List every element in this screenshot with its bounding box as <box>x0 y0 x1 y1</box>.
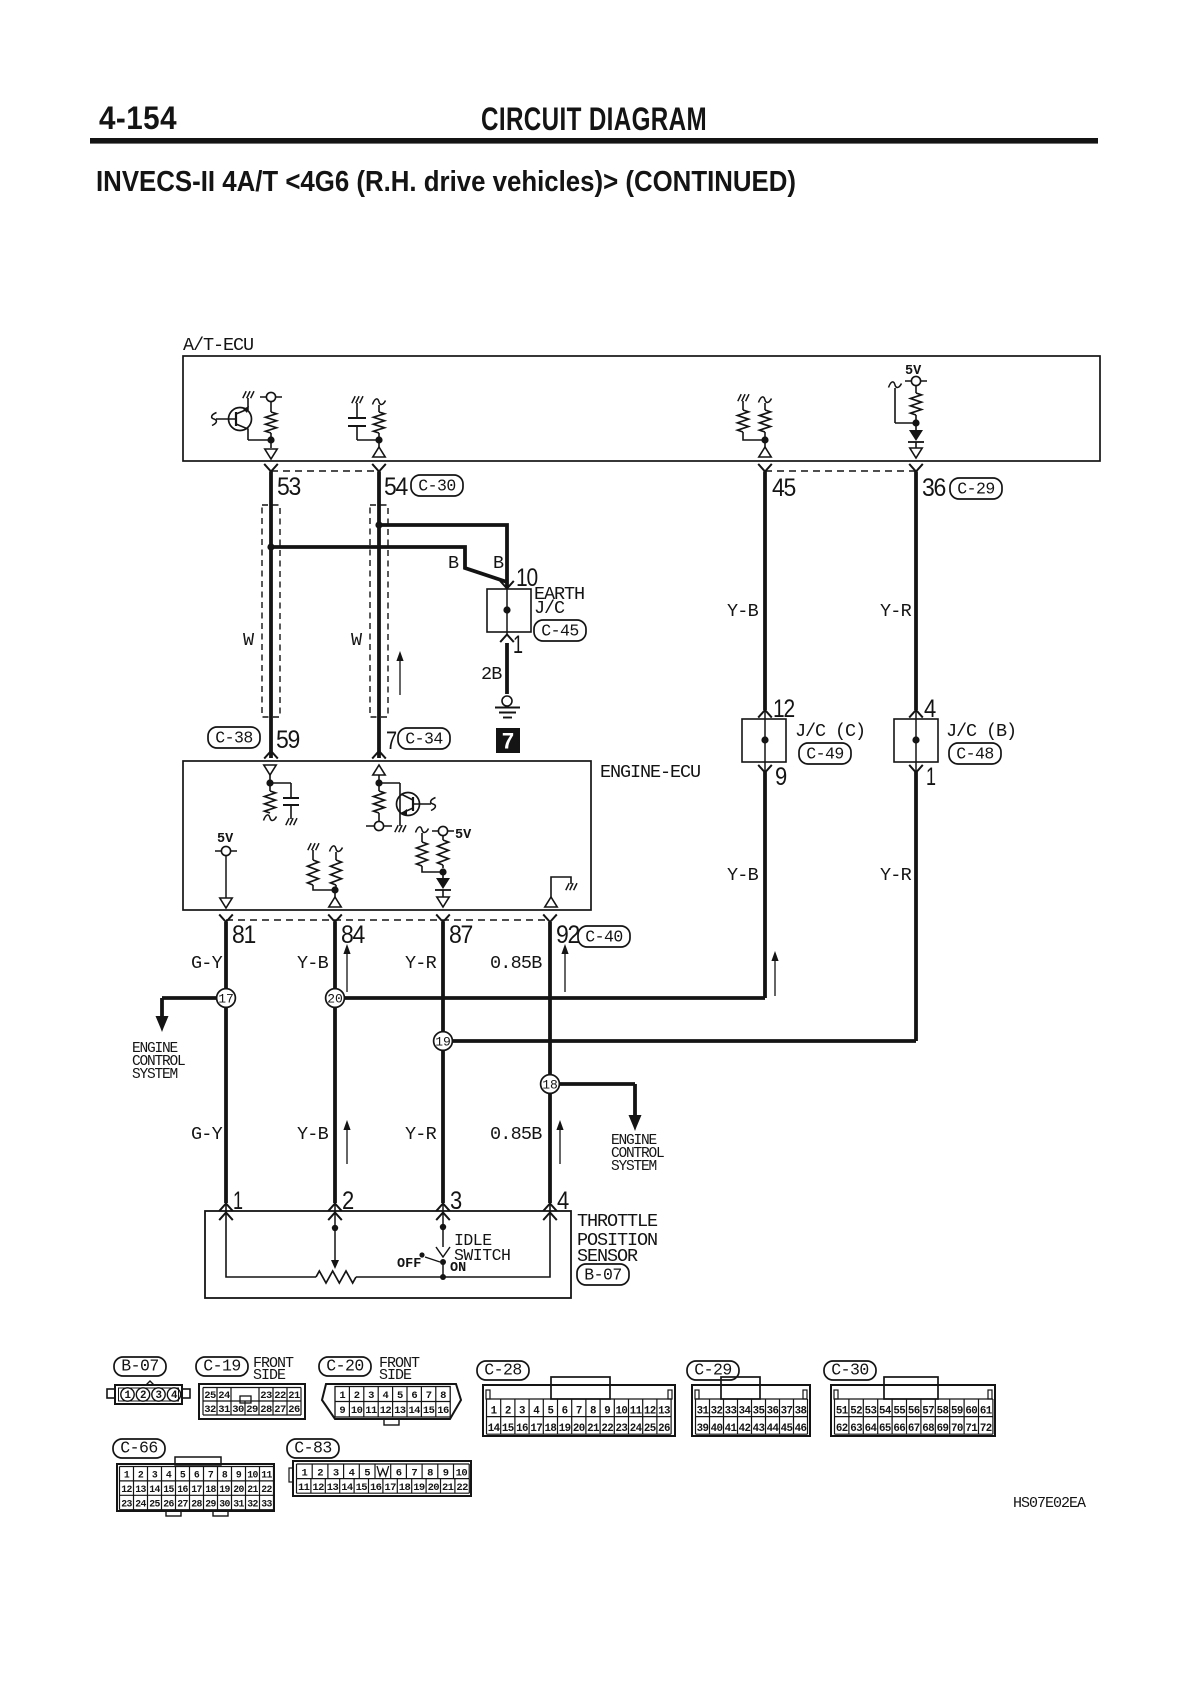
svg-text:0.85B: 0.85B <box>490 1124 542 1145</box>
svg-text:Y-R: Y-R <box>405 953 437 974</box>
svg-text:39: 39 <box>697 1423 709 1435</box>
transistor Q1 inside A/T-ECU <box>212 391 271 440</box>
svg-text:6: 6 <box>396 1467 402 1479</box>
svg-text:15: 15 <box>502 1423 514 1435</box>
svg-text:5: 5 <box>364 1467 370 1479</box>
svg-text:16: 16 <box>516 1423 528 1435</box>
svg-text:10: 10 <box>247 1470 258 1481</box>
svg-text:19: 19 <box>219 1484 230 1495</box>
svg-text:27: 27 <box>177 1499 188 1510</box>
svg-text:21: 21 <box>288 1390 300 1402</box>
connector drawing C-19 <box>199 1384 305 1419</box>
svg-text:INVECS-II 4A/T <4G6 (R.H. driv: INVECS-II 4A/T <4G6 (R.H. drive vehicles… <box>96 166 796 198</box>
connector label C-29 <box>950 478 1002 499</box>
svg-text:A/T-ECU: A/T-ECU <box>183 335 253 356</box>
svg-text:31: 31 <box>233 1499 244 1510</box>
svg-text:36: 36 <box>767 1405 779 1417</box>
pin 87 of connector C-40 <box>436 914 472 949</box>
svg-text:16: 16 <box>177 1484 188 1495</box>
svg-text:57: 57 <box>922 1405 934 1417</box>
svg-text:20: 20 <box>573 1423 585 1435</box>
svg-text:17: 17 <box>218 992 234 1007</box>
svg-text:14: 14 <box>408 1405 420 1417</box>
svg-text:1: 1 <box>124 1470 130 1481</box>
svg-text:3: 3 <box>333 1467 339 1479</box>
ENGINE-ECU block <box>183 761 700 910</box>
svg-text:22: 22 <box>601 1423 613 1435</box>
idle switch from pin 3 <box>419 1204 450 1280</box>
svg-text:29: 29 <box>246 1404 258 1416</box>
svg-text:OFF: OFF <box>397 1257 421 1272</box>
svg-text:J/C: J/C <box>534 598 565 619</box>
svg-text:20: 20 <box>428 1482 440 1494</box>
pin 54 of connector C-30 <box>372 464 408 501</box>
track wire to pin 4 <box>356 1204 550 1277</box>
svg-text:THROTTLE: THROTTLE <box>577 1211 658 1232</box>
svg-text:6: 6 <box>411 1390 417 1402</box>
svg-text:7: 7 <box>502 729 514 754</box>
svg-text:3: 3 <box>152 1470 158 1481</box>
svg-text:2: 2 <box>317 1467 323 1479</box>
connector label C-83 <box>287 1439 339 1458</box>
svg-text:Y-R: Y-R <box>880 601 912 622</box>
svg-text:59: 59 <box>276 726 299 754</box>
pin 7 chevron and label <box>372 727 396 759</box>
svg-text:8: 8 <box>440 1390 446 1402</box>
transistor Q2 inside ENGINE-ECU <box>379 783 436 832</box>
pin 59 input triangle and resistor R6 / capacitor C2 inside ENGINE-ECU <box>264 765 300 825</box>
svg-text:30: 30 <box>219 1499 230 1510</box>
svg-text:35: 35 <box>753 1405 765 1417</box>
connector label C-29 <box>687 1361 739 1380</box>
svg-text:CIRCUIT DIAGRAM: CIRCUIT DIAGRAM <box>481 101 707 137</box>
svg-text:23: 23 <box>121 1499 132 1510</box>
svg-text:60: 60 <box>965 1405 977 1417</box>
svg-text:C-48: C-48 <box>956 745 994 764</box>
pin 12 of J/C (C) <box>758 695 794 723</box>
svg-text:87: 87 <box>449 921 472 949</box>
shield dashed box around wire 54 <box>371 506 387 716</box>
svg-text:C-40: C-40 <box>585 928 623 947</box>
svg-text:63: 63 <box>850 1423 862 1435</box>
svg-text:15: 15 <box>423 1405 435 1417</box>
shield dashed box around wire 53 <box>263 506 279 716</box>
pin 4 of J/C (B) <box>909 695 936 723</box>
svg-text:36: 36 <box>922 474 945 502</box>
svg-text:27: 27 <box>274 1404 286 1416</box>
svg-text:31: 31 <box>697 1405 710 1417</box>
svg-text:3: 3 <box>368 1390 374 1402</box>
resistor R3 with chassis ground (pin 45 branch) <box>738 394 766 440</box>
svg-text:16: 16 <box>437 1405 449 1417</box>
svg-text:W: W <box>243 630 255 651</box>
svg-text:32: 32 <box>247 1499 258 1510</box>
svg-text:B: B <box>448 553 459 574</box>
svg-text:70: 70 <box>951 1423 963 1435</box>
branch from node 18 to engine control system <box>550 1084 642 1131</box>
svg-text:4: 4 <box>166 1470 172 1481</box>
resistor R2 (pin 54 branch) <box>373 399 386 457</box>
svg-text:8: 8 <box>590 1405 596 1417</box>
svg-text:C-30: C-30 <box>831 1361 869 1380</box>
wire Y-R from J/C (B) pin 1 down to node 19 run <box>915 762 917 772</box>
svg-text:7: 7 <box>411 1467 417 1479</box>
up arrow beside Y-B right <box>774 957 776 996</box>
node 19 <box>434 1032 453 1051</box>
svg-text:19: 19 <box>559 1423 571 1435</box>
connector label B-07 tag <box>577 1264 629 1285</box>
svg-text:38: 38 <box>795 1405 807 1417</box>
svg-text:HS07E02EA: HS07E02EA <box>1013 1495 1086 1512</box>
svg-text:C-28: C-28 <box>484 1361 522 1380</box>
svg-text:12: 12 <box>380 1405 392 1417</box>
svg-text:13: 13 <box>135 1484 146 1495</box>
svg-text:17: 17 <box>191 1484 202 1495</box>
svg-text:21: 21 <box>247 1484 258 1495</box>
svg-text:10: 10 <box>616 1405 628 1417</box>
svg-text:65: 65 <box>879 1423 891 1435</box>
svg-text:C-19: C-19 <box>203 1357 241 1376</box>
connector label C-49 <box>799 743 851 764</box>
svg-text:17: 17 <box>384 1482 396 1494</box>
pin 9 of J/C (C) <box>758 763 786 791</box>
text engine control system left <box>132 1041 185 1083</box>
5V supply, resistor R5 and zener diode D1 (pin 36 branch) <box>889 364 928 458</box>
svg-text:54: 54 <box>879 1405 892 1417</box>
svg-text:21: 21 <box>587 1423 600 1435</box>
svg-text:12: 12 <box>121 1484 132 1495</box>
EARTH J/C junction block C-45 <box>487 584 584 632</box>
wire Y-B from pin 45 to J/C (C) <box>763 472 767 711</box>
svg-text:SYSTEM: SYSTEM <box>611 1159 657 1175</box>
svg-text:ENGINE-ECU: ENGINE-ECU <box>600 762 700 783</box>
svg-text:4: 4 <box>349 1467 355 1479</box>
node 17 <box>217 989 236 1008</box>
svg-text:18: 18 <box>399 1482 411 1494</box>
svg-text:2: 2 <box>505 1405 511 1417</box>
svg-text:18: 18 <box>205 1484 216 1495</box>
page header rule and titles <box>90 100 1098 198</box>
svg-text:18: 18 <box>542 1078 558 1093</box>
svg-text:15: 15 <box>356 1482 368 1494</box>
svg-text:21: 21 <box>442 1482 454 1494</box>
svg-text:33: 33 <box>725 1405 737 1417</box>
svg-text:62: 62 <box>836 1423 848 1435</box>
label IDLE SWITCH <box>454 1231 510 1265</box>
svg-text:9: 9 <box>775 763 786 791</box>
svg-text:32: 32 <box>204 1404 216 1416</box>
svg-text:72: 72 <box>980 1423 992 1435</box>
up arrow beside 0.85B upper <box>564 950 566 992</box>
pin 36 of connector C-29 <box>909 464 945 502</box>
pin 7 input triangle and resistor R7 inside ENGINE-ECU <box>366 765 392 831</box>
connector label C-28 <box>477 1361 529 1380</box>
svg-text:11: 11 <box>261 1470 272 1481</box>
svg-text:6: 6 <box>194 1470 200 1481</box>
svg-text:71: 71 <box>965 1423 978 1435</box>
svg-text:ON: ON <box>450 1261 466 1276</box>
svg-text:28: 28 <box>260 1404 272 1416</box>
svg-text:19: 19 <box>435 1035 451 1050</box>
svg-text:23: 23 <box>260 1390 272 1402</box>
dashed connector line for C-40 pins <box>226 919 550 921</box>
svg-text:W: W <box>351 630 363 651</box>
pin 45 of connector C-29 <box>758 464 795 502</box>
ground hook (pin 92) inside ENGINE-ECU <box>545 877 577 907</box>
wire Y-R from pin 87 to TPS pin 3 <box>441 922 445 1203</box>
svg-text:B: B <box>493 553 504 574</box>
junction block J/C (B) C-48 <box>894 710 1016 762</box>
svg-text:92: 92 <box>556 921 579 949</box>
connector drawing C-29 <box>692 1377 810 1436</box>
wire Y-B from J/C (C) pin 9 down to node 20 run <box>764 762 766 772</box>
svg-text:C-29: C-29 <box>957 480 995 499</box>
svg-text:53: 53 <box>277 473 300 501</box>
svg-text:24: 24 <box>630 1423 643 1435</box>
svg-text:9: 9 <box>339 1405 345 1417</box>
svg-text:6: 6 <box>562 1405 568 1417</box>
svg-text:81: 81 <box>232 921 255 949</box>
svg-text:C-66: C-66 <box>120 1439 158 1458</box>
svg-text:4: 4 <box>383 1390 389 1402</box>
svg-text:14: 14 <box>488 1423 501 1435</box>
throttle position sensor box B-07 <box>205 1211 571 1298</box>
svg-text:54: 54 <box>384 473 408 501</box>
resistor pair R10/R11 with 5V and diode D2 (pin 87) inside ENGINE-ECU <box>416 826 473 907</box>
wire G-Y from pin 81 to TPS pin 1 <box>224 922 228 1203</box>
capacitor C1 (pin 54 branch) <box>348 396 379 440</box>
svg-text:42: 42 <box>739 1423 751 1435</box>
connector drawing C-30 <box>831 1377 995 1436</box>
svg-text:3: 3 <box>156 1390 162 1402</box>
svg-text:64: 64 <box>865 1423 878 1435</box>
svg-text:20: 20 <box>327 992 343 1007</box>
up arrow beside Y-B lower <box>346 1126 348 1164</box>
potentiometer track wire inside TPS <box>226 1204 316 1277</box>
svg-text:52: 52 <box>850 1405 862 1417</box>
svg-text:C-20: C-20 <box>326 1357 364 1376</box>
svg-text:C-38: C-38 <box>215 729 253 748</box>
svg-text:2B: 2B <box>481 664 502 685</box>
pin 1 of J/C (B) <box>909 763 935 791</box>
svg-text:31: 31 <box>218 1404 230 1416</box>
resistor R12 potentiometer track <box>316 1271 356 1283</box>
svg-text:20: 20 <box>233 1484 244 1495</box>
svg-text:28: 28 <box>191 1499 202 1510</box>
svg-text:SYSTEM: SYSTEM <box>132 1067 178 1083</box>
node 20 <box>326 989 345 1008</box>
svg-text:12: 12 <box>644 1405 656 1417</box>
svg-text:14: 14 <box>341 1482 353 1494</box>
svg-text:Y-B: Y-B <box>727 865 759 886</box>
resistor R1 with terminal circle (pin 53 branch) <box>260 392 282 459</box>
svg-text:7: 7 <box>576 1405 582 1417</box>
svg-text:84: 84 <box>341 921 365 949</box>
svg-text:0.85B: 0.85B <box>490 953 542 974</box>
pin 53 of connector C-30 <box>264 464 300 501</box>
svg-text:B-07: B-07 <box>584 1266 622 1285</box>
svg-text:29: 29 <box>205 1499 216 1510</box>
svg-text:C-45: C-45 <box>541 622 579 641</box>
svg-text:1: 1 <box>513 631 522 659</box>
svg-text:2: 2 <box>354 1390 360 1402</box>
svg-text:68: 68 <box>922 1423 934 1435</box>
svg-text:34: 34 <box>739 1405 752 1417</box>
pin 84 of connector C-40 <box>328 914 365 949</box>
wire W from pin 53 to pin 59 <box>269 472 273 759</box>
svg-text:55: 55 <box>893 1405 905 1417</box>
svg-text:13: 13 <box>658 1405 670 1417</box>
svg-text:44: 44 <box>767 1423 780 1435</box>
A/T-ECU block <box>183 335 1100 461</box>
pin 2 of throttle position sensor <box>328 1187 353 1220</box>
wire from node 20 to J/C (C) pin 9 run <box>335 996 765 1000</box>
svg-text:C-83: C-83 <box>294 1439 332 1458</box>
svg-text:1: 1 <box>301 1467 307 1479</box>
svg-text:14: 14 <box>149 1484 160 1495</box>
svg-text:26: 26 <box>288 1404 300 1416</box>
svg-text:45: 45 <box>781 1423 793 1435</box>
connector drawing C-20 <box>322 1384 461 1425</box>
text FRONT SIDE for C-20 <box>379 1355 420 1384</box>
svg-text:51: 51 <box>836 1405 849 1417</box>
svg-text:13: 13 <box>394 1405 406 1417</box>
svg-text:Y-B: Y-B <box>727 601 759 622</box>
svg-text:33: 33 <box>261 1499 272 1510</box>
ground reference number 7 (black square) <box>496 728 520 754</box>
svg-text:25: 25 <box>644 1423 656 1435</box>
svg-text:18: 18 <box>545 1423 557 1435</box>
svg-text:67: 67 <box>908 1423 920 1435</box>
connector label B-07 bottom <box>114 1357 166 1376</box>
svg-text:5: 5 <box>547 1405 553 1417</box>
svg-text:11: 11 <box>298 1482 310 1494</box>
svg-text:C-34: C-34 <box>405 730 443 749</box>
pin 3 of throttle position sensor <box>436 1187 461 1220</box>
svg-text:24: 24 <box>135 1499 146 1510</box>
svg-text:3: 3 <box>519 1405 525 1417</box>
wiper arm from pin 2 <box>331 1204 339 1269</box>
svg-text:32: 32 <box>711 1405 723 1417</box>
text engine control system right <box>611 1133 664 1175</box>
svg-text:11: 11 <box>365 1405 377 1417</box>
svg-text:G-Y: G-Y <box>191 953 223 974</box>
svg-text:5V: 5V <box>217 832 234 847</box>
node 18 <box>541 1075 560 1094</box>
wire B from pin 54 junction to EARTH J/C pin 10 <box>379 525 507 587</box>
branch from node 17 to engine control system <box>156 998 227 1032</box>
text THROTTLE POSITION SENSOR <box>577 1211 658 1267</box>
svg-text:69: 69 <box>937 1423 949 1435</box>
up arrow beside Y-B upper <box>346 950 348 992</box>
connector label C-40 <box>578 926 630 947</box>
svg-text:9: 9 <box>443 1467 449 1479</box>
svg-text:13: 13 <box>327 1482 339 1494</box>
svg-text:12: 12 <box>312 1482 324 1494</box>
svg-text:66: 66 <box>893 1423 905 1435</box>
svg-text:11: 11 <box>630 1405 643 1417</box>
resistor pair R8/R9 (pin 84) inside ENGINE-ECU <box>308 843 343 907</box>
svg-text:40: 40 <box>711 1423 723 1435</box>
svg-text:B-07: B-07 <box>121 1357 159 1376</box>
svg-text:7: 7 <box>386 727 396 755</box>
junction on wire 53 <box>267 543 274 550</box>
wire from node 19 to J/C (B) pin 1 run <box>443 1039 916 1043</box>
up arrow on wire 54 run <box>399 657 401 695</box>
text FRONT SIDE for C-19 <box>253 1355 294 1384</box>
svg-text:1: 1 <box>491 1405 498 1417</box>
pin 59 chevron and label <box>264 726 299 759</box>
svg-text:J/C (C): J/C (C) <box>795 721 865 742</box>
connector drawing C-28 <box>483 1377 675 1436</box>
svg-text:C-49: C-49 <box>806 745 844 764</box>
svg-text:61: 61 <box>980 1405 993 1417</box>
connector drawing C-66 <box>117 1457 274 1516</box>
svg-text:9: 9 <box>236 1470 242 1481</box>
5V reference arrow (pin 81) inside ENGINE-ECU <box>215 832 237 908</box>
svg-text:17: 17 <box>530 1423 542 1435</box>
connector drawing B-07 <box>107 1381 190 1404</box>
svg-text:Y-R: Y-R <box>405 1124 437 1145</box>
wire 2B to ground <box>481 632 507 694</box>
pin 1 of EARTH J/C <box>500 631 522 659</box>
svg-text:53: 53 <box>865 1405 877 1417</box>
svg-text:45: 45 <box>772 474 795 502</box>
svg-text:16: 16 <box>370 1482 382 1494</box>
svg-text:41: 41 <box>725 1423 738 1435</box>
svg-text:43: 43 <box>753 1423 765 1435</box>
svg-text:15: 15 <box>163 1484 174 1495</box>
svg-text:46: 46 <box>795 1423 807 1435</box>
connector label C-45 <box>534 620 586 641</box>
wire 0.85B from pin 92 to TPS pin 4 <box>548 922 552 1203</box>
svg-text:G-Y: G-Y <box>191 1124 223 1145</box>
svg-text:5: 5 <box>397 1390 403 1402</box>
svg-text:8: 8 <box>222 1470 228 1481</box>
svg-text:56: 56 <box>908 1405 920 1417</box>
svg-text:7: 7 <box>208 1470 214 1481</box>
pin 4 of throttle position sensor <box>543 1187 569 1220</box>
svg-text:5: 5 <box>180 1470 186 1481</box>
pin 92 of connector C-40 <box>543 914 579 949</box>
svg-text:1: 1 <box>339 1390 345 1402</box>
svg-text:24: 24 <box>218 1390 230 1402</box>
svg-text:22: 22 <box>274 1390 286 1402</box>
svg-text:1: 1 <box>926 763 935 791</box>
pin 81 of connector C-40 <box>219 914 255 949</box>
svg-text:2: 2 <box>140 1390 146 1402</box>
up arrow beside 0.85B lower <box>559 1126 561 1164</box>
connector label C-20 <box>319 1357 371 1376</box>
svg-text:37: 37 <box>781 1405 793 1417</box>
svg-text:19: 19 <box>413 1482 425 1494</box>
wire Y-B from pin 84 to TPS pin 2 <box>333 922 337 1203</box>
wire Y-R from pin 36 to J/C (B) <box>914 472 918 711</box>
connector label C-34 <box>398 728 450 749</box>
svg-text:25: 25 <box>149 1499 160 1510</box>
svg-text:C-30: C-30 <box>418 477 456 496</box>
pin 1 of throttle position sensor <box>219 1187 242 1220</box>
connector label C-19 <box>196 1357 248 1376</box>
svg-text:23: 23 <box>616 1423 628 1435</box>
connector drawing C-83 <box>289 1461 471 1496</box>
wire B from pin 53 junction merging to EARTH J/C <box>271 547 507 582</box>
svg-text:SIDE: SIDE <box>379 1367 412 1384</box>
svg-text:25: 25 <box>204 1390 216 1402</box>
junction on wire 54 <box>375 521 382 528</box>
svg-text:4-154: 4-154 <box>99 100 177 136</box>
svg-text:22: 22 <box>456 1482 468 1494</box>
